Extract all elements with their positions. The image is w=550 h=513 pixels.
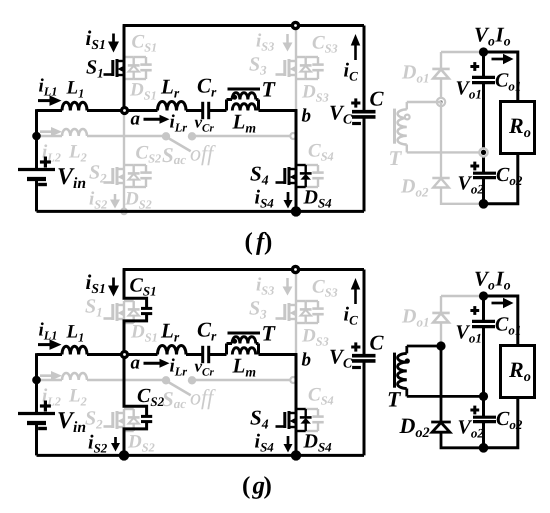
svg-text:a: a: [131, 109, 141, 130]
svg-text:C: C: [370, 331, 385, 355]
svg-text:): ): [264, 229, 272, 256]
svg-text:a: a: [131, 353, 141, 374]
svg-text:off: off: [190, 141, 216, 166]
svg-text:C: C: [370, 87, 385, 111]
svg-text:T: T: [387, 387, 402, 412]
svg-text:(: (: [245, 229, 253, 256]
svg-text:off: off: [190, 385, 216, 410]
svg-text:b: b: [302, 350, 312, 371]
svg-text:): ): [264, 473, 272, 500]
svg-text:T: T: [389, 146, 403, 170]
svg-text:T: T: [262, 321, 277, 346]
svg-text:T: T: [262, 77, 277, 102]
svg-text:b: b: [302, 106, 312, 127]
svg-text:(: (: [242, 473, 250, 500]
